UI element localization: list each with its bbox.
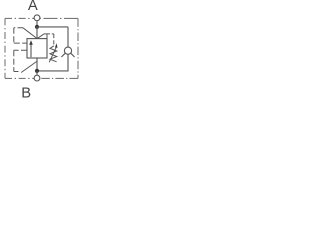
node: top junction	[35, 25, 39, 29]
svg-text:B: B	[21, 86, 31, 101]
pilot line: left vertical down	[13, 28, 15, 43]
enclosure left edge (dash-dot)	[4, 18, 6, 78]
pilot line: into valve left side upper	[14, 42, 27, 44]
check valve seat	[61, 53, 74, 57]
pilot line: left vertical down to bottom	[13, 50, 15, 71]
wire: top horizontal to check-valve branch	[37, 26, 68, 28]
enclosure bottom edge left of port B (dash-dot)	[5, 77, 34, 79]
valve flow arrow (up)	[30, 44, 32, 57]
pilot line: diagonal from valve top port up-right	[37, 34, 44, 39]
enclosure top edge left of port A (dash-dot)	[5, 17, 34, 19]
port A circle	[34, 15, 40, 21]
wire: check branch down	[67, 27, 69, 47]
port B circle	[34, 75, 40, 81]
wire: port A down to top junction	[36, 21, 38, 27]
pilot line: down to spring top	[53, 34, 55, 46]
wire: bottom junction to port B	[36, 71, 38, 75]
adjustment arrow head	[55, 43, 58, 48]
check valve ball	[64, 47, 71, 54]
wire: check valve down then left to bottom junction	[37, 54, 68, 71]
adjustment arrow shaft through spring	[49, 48, 56, 63]
pilot line: short horizontal at bottom	[14, 71, 19, 73]
spring (adjustable)	[50, 46, 57, 62]
svg-text:A: A	[28, 0, 38, 14]
enclosure top edge right of port A (dash-dot)	[40, 17, 78, 19]
enclosure bottom edge right of port B (dash-dot)	[40, 77, 78, 79]
pilot line: horizontal to left edge	[14, 27, 23, 29]
pilot line: horizontal to spring corner	[44, 33, 54, 35]
stub: envelope top-right corner up to pilot	[46, 34, 48, 39]
enclosure right edge (dash-dot)	[77, 18, 79, 78]
valve envelope square	[27, 39, 47, 58]
node: bottom junction	[35, 69, 39, 73]
wire: valve bottom port down to bottom junction	[36, 58, 38, 71]
pilot line: diagonal up to line below valve	[21, 62, 36, 73]
pilot line: from valve left side lower	[14, 49, 27, 51]
wire: top junction to valve top port	[36, 27, 38, 39]
pilot line: diagonal from valve top port up-left	[23, 28, 37, 39]
